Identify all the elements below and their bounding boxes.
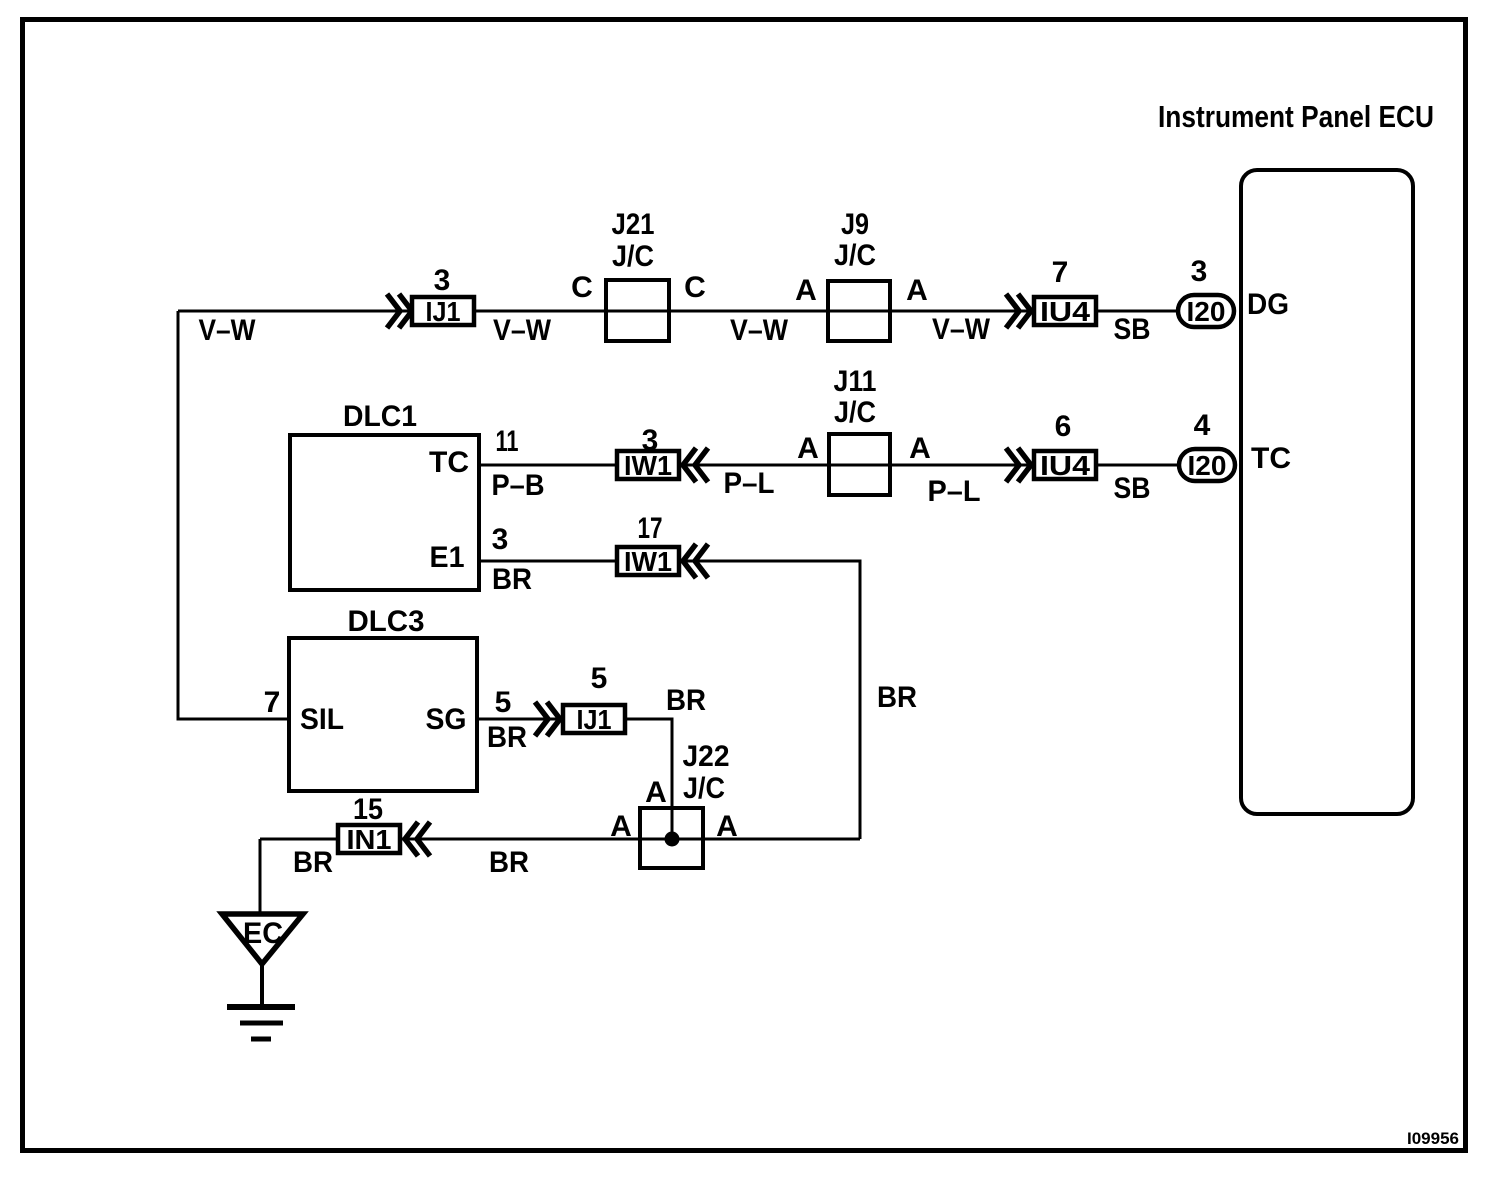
svg-text:IU4: IU4 [1040,296,1090,327]
svg-text:V–W: V–W [730,314,789,347]
svg-text:P–L: P–L [928,475,981,508]
svg-text:P–L: P–L [724,467,775,500]
svg-text:J/C: J/C [834,239,876,272]
svg-text:IJ1: IJ1 [426,296,461,327]
svg-text:A: A [645,776,667,809]
svg-text:7: 7 [264,686,281,719]
svg-text:BR: BR [492,563,532,596]
svg-text:EC: EC [243,917,283,950]
svg-text:5: 5 [495,686,512,719]
svg-text:11: 11 [496,425,519,458]
svg-text:BR: BR [293,846,333,879]
svg-text:DLC1: DLC1 [343,400,417,433]
svg-text:C: C [571,271,593,304]
svg-text:Instrument Panel ECU: Instrument Panel ECU [1158,99,1434,134]
svg-text:A: A [795,274,817,307]
svg-text:P–B: P–B [492,469,545,502]
svg-text:A: A [909,432,931,465]
svg-text:I20: I20 [1188,450,1227,481]
svg-text:17: 17 [638,512,663,545]
svg-text:A: A [716,810,738,843]
svg-text:IW1: IW1 [624,450,672,481]
svg-text:J/C: J/C [683,772,725,805]
svg-text:J9: J9 [841,208,869,241]
svg-text:A: A [610,810,632,843]
svg-text:C: C [684,271,706,304]
svg-text:TC: TC [429,446,469,479]
svg-text:E1: E1 [430,541,465,574]
svg-text:A: A [797,432,819,465]
svg-text:TC: TC [1251,442,1291,475]
svg-text:V–W: V–W [493,314,552,347]
svg-text:V–W: V–W [199,314,257,347]
svg-text:DG: DG [1247,288,1289,321]
svg-text:IW1: IW1 [624,546,672,577]
svg-text:SB: SB [1114,472,1151,505]
svg-text:IJ1: IJ1 [577,704,612,735]
svg-text:BR: BR [877,681,917,714]
svg-text:SIL: SIL [300,703,344,736]
svg-text:BR: BR [487,721,527,754]
svg-text:SB: SB [1114,313,1151,346]
svg-text:15: 15 [353,793,383,826]
svg-text:SG: SG [426,703,467,736]
svg-text:6: 6 [1055,410,1072,443]
svg-text:J21: J21 [612,208,655,241]
svg-text:J11: J11 [834,365,877,398]
svg-text:DLC3: DLC3 [348,605,425,638]
svg-text:BR: BR [666,684,706,717]
svg-text:J/C: J/C [834,396,876,429]
svg-text:V–W: V–W [932,313,991,346]
svg-text:I09956: I09956 [1407,1129,1459,1148]
svg-text:IU4: IU4 [1040,450,1090,481]
svg-text:I20: I20 [1187,296,1226,327]
svg-text:7: 7 [1052,256,1069,289]
svg-text:3: 3 [492,523,509,556]
svg-text:3: 3 [434,264,451,297]
svg-text:4: 4 [1194,409,1211,442]
svg-text:IN1: IN1 [347,824,392,855]
svg-text:J/C: J/C [612,240,654,273]
svg-text:3: 3 [1191,255,1208,288]
svg-text:5: 5 [591,662,608,695]
svg-text:J22: J22 [683,740,730,773]
svg-text:A: A [906,274,928,307]
svg-text:BR: BR [489,846,529,879]
